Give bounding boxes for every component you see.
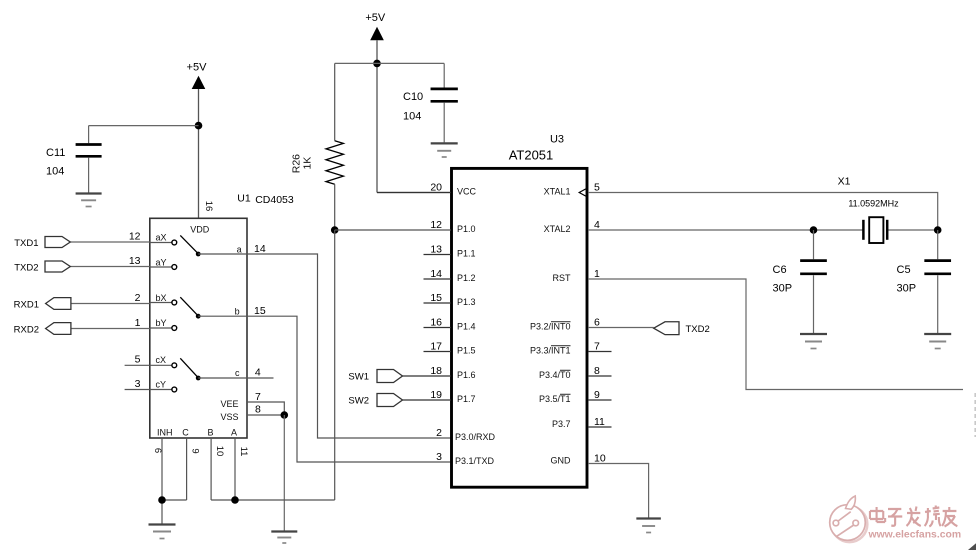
svg-text:11: 11 — [238, 447, 249, 457]
svg-text:P1.7: P1.7 — [457, 394, 476, 404]
svg-text:P1.6: P1.6 — [457, 370, 476, 380]
svg-text:TXD1: TXD1 — [14, 238, 38, 249]
svg-text:P3.1/TXD: P3.1/TXD — [455, 456, 495, 466]
svg-text:6: 6 — [594, 317, 600, 329]
svg-text:a: a — [237, 245, 242, 255]
svg-text:P1.3: P1.3 — [457, 297, 476, 307]
svg-text:c: c — [235, 368, 240, 378]
svg-text:1: 1 — [594, 268, 600, 280]
svg-text:3: 3 — [135, 378, 141, 390]
svg-text:TXD2: TXD2 — [14, 263, 38, 274]
svg-text:12: 12 — [430, 219, 442, 231]
svg-text:5: 5 — [594, 182, 600, 194]
svg-text:CD4053: CD4053 — [255, 194, 294, 206]
svg-text:12: 12 — [129, 231, 141, 243]
svg-text:RST: RST — [553, 273, 572, 283]
svg-text:SW2: SW2 — [348, 396, 369, 407]
svg-text:P3.4/T0: P3.4/T0 — [539, 370, 571, 380]
svg-text:2: 2 — [436, 427, 442, 439]
svg-text:13: 13 — [430, 244, 442, 256]
svg-text:INH: INH — [157, 428, 173, 438]
svg-text:104: 104 — [46, 166, 64, 178]
svg-text:104: 104 — [403, 111, 421, 123]
svg-text:R26: R26 — [290, 154, 302, 173]
svg-text:P1.4: P1.4 — [457, 321, 476, 331]
svg-text:9: 9 — [594, 389, 600, 401]
svg-text:14: 14 — [254, 243, 266, 255]
svg-text:7: 7 — [255, 391, 261, 403]
svg-text:3: 3 — [436, 451, 442, 463]
svg-text:13: 13 — [129, 255, 141, 267]
svg-text:16: 16 — [203, 201, 214, 212]
svg-text:10: 10 — [214, 446, 225, 457]
svg-text:VDD: VDD — [190, 225, 210, 235]
svg-text:B: B — [208, 428, 214, 438]
svg-text:P1.1: P1.1 — [457, 248, 476, 258]
svg-text:30P: 30P — [897, 283, 917, 295]
svg-text:10: 10 — [594, 453, 606, 465]
svg-text:7: 7 — [594, 341, 600, 353]
svg-text:C6: C6 — [773, 264, 787, 276]
svg-text:1K: 1K — [302, 157, 314, 170]
svg-text:AT2051: AT2051 — [509, 148, 554, 163]
svg-text:4: 4 — [594, 219, 600, 231]
svg-text:2: 2 — [135, 292, 141, 304]
svg-text:X1: X1 — [838, 176, 851, 188]
svg-text:cY: cY — [156, 379, 167, 389]
svg-text:GND: GND — [551, 455, 572, 465]
svg-text:aX: aX — [156, 232, 167, 242]
svg-text:C10: C10 — [403, 91, 423, 103]
svg-text:9: 9 — [190, 448, 201, 453]
svg-text:XTAL1: XTAL1 — [544, 186, 571, 196]
svg-text:4: 4 — [255, 367, 261, 379]
svg-text:cX: cX — [156, 355, 167, 365]
svg-text:C5: C5 — [897, 264, 911, 276]
svg-text:b: b — [235, 307, 240, 317]
svg-text:TXD2: TXD2 — [686, 324, 710, 335]
svg-text:P1.0: P1.0 — [457, 224, 476, 234]
svg-text:RXD2: RXD2 — [14, 325, 39, 336]
svg-text:C11: C11 — [46, 147, 65, 159]
svg-text:A: A — [231, 428, 237, 438]
svg-text:19: 19 — [430, 389, 442, 401]
svg-text:U1: U1 — [237, 193, 251, 205]
svg-text:bX: bX — [156, 293, 167, 303]
svg-text:11.0592MHz: 11.0592MHz — [848, 199, 899, 209]
svg-text:11: 11 — [594, 416, 605, 428]
svg-text:U3: U3 — [550, 134, 564, 146]
svg-text:P1.2: P1.2 — [457, 273, 476, 283]
svg-text:aY: aY — [156, 257, 167, 267]
svg-text:VCC: VCC — [457, 186, 477, 196]
svg-text:P3.7: P3.7 — [552, 419, 571, 429]
svg-text:8: 8 — [594, 365, 600, 377]
svg-text:8: 8 — [255, 404, 261, 416]
svg-text:P3.5/T1: P3.5/T1 — [539, 394, 571, 404]
svg-text:20: 20 — [430, 182, 442, 194]
svg-text:18: 18 — [430, 365, 442, 377]
svg-text:17: 17 — [430, 341, 442, 353]
svg-text:16: 16 — [430, 317, 442, 329]
svg-text:P1.5: P1.5 — [457, 345, 476, 355]
svg-text:P3.0/RXD: P3.0/RXD — [455, 432, 496, 442]
svg-text:+5V: +5V — [365, 12, 386, 24]
svg-text:VEE: VEE — [220, 399, 238, 409]
svg-text:15: 15 — [430, 292, 442, 304]
svg-text:+5V: +5V — [187, 62, 208, 74]
svg-text:C: C — [182, 428, 189, 438]
svg-text:30P: 30P — [773, 283, 793, 295]
svg-text:www.elecfans.com: www.elecfans.com — [868, 529, 962, 540]
svg-text:XTAL2: XTAL2 — [544, 224, 571, 234]
svg-text:SW1: SW1 — [348, 372, 369, 383]
svg-text:VSS: VSS — [220, 412, 238, 422]
svg-text:15: 15 — [254, 305, 266, 317]
svg-text:1: 1 — [135, 317, 141, 329]
svg-text:14: 14 — [430, 268, 442, 280]
svg-text:5: 5 — [135, 354, 141, 366]
svg-text:RXD1: RXD1 — [14, 300, 39, 311]
svg-text:bY: bY — [156, 318, 167, 328]
svg-text:P3.3/INT1: P3.3/INT1 — [530, 345, 571, 355]
svg-text:P3.2/INT0: P3.2/INT0 — [530, 321, 571, 331]
